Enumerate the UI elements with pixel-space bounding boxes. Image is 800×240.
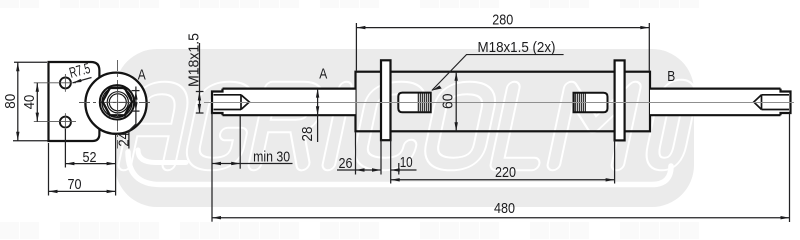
52 [65,162,74,165]
svg-text:70: 70 [68,177,82,193]
rod thread right end [754,89,791,116]
boss crosshair inside nut [104,89,131,116]
svg-text:24: 24 [117,132,133,147]
min30 [212,162,221,165]
svg-text:52: 52 [83,150,97,166]
svg-text:M18x1.5: M18x1.5 [186,33,202,87]
dim 280 extension lines [355,23,357,71]
dim 70 [48,143,50,196]
watermark underline swoosh [128,150,671,185]
dim 480 line + extension right [789,113,791,222]
front view arrowheads [16,62,138,193]
axis centerline [204,102,794,104]
svg-text:26: 26 [339,156,353,172]
piston rod left segment [223,89,356,116]
svg-text:60: 60 [441,94,457,110]
480 [212,216,221,219]
dim 280 line [356,27,649,29]
boss centerlines [79,60,151,149]
dim 24 [132,90,140,92]
boss ring circles [100,85,134,119]
svg-text:A: A [319,67,327,83]
40 [36,83,39,92]
front view dims [13,62,140,195]
24 [134,91,137,100]
rod thread left end (M18x1.5) [212,89,249,116]
port right (M18x1.5) [574,93,608,113]
70 [49,190,58,193]
svg-text:80: 80 [3,94,19,109]
svg-text:A: A [138,68,146,84]
svg-text:40: 40 [22,95,38,110]
bolt hole bottom [60,117,71,128]
28 [316,89,319,98]
nut inner circles [107,92,128,113]
leader M18x1.5 (2x) [432,55,564,91]
svg-text:10: 10 [400,155,413,171]
hole centermarks [34,74,76,131]
280 [356,26,365,29]
dim 52 [64,129,66,168]
leader arrow (2x ports) [432,86,442,91]
10 [391,168,400,171]
svg-text:min 30: min 30 [253,150,290,166]
26 [356,168,365,171]
mounting flange left (side view) [381,60,391,140]
cylinder body (tube) [356,72,651,132]
hex nut [103,88,133,115]
60 [455,72,458,81]
dim 60 line [455,72,457,132]
dim 80 [14,61,47,63]
bolt hole top [60,77,71,88]
dim M18 line + extensions [199,43,201,113]
svg-text:220: 220 [495,165,516,181]
flange plate [49,62,100,141]
texts side view [186,12,675,217]
boss outer circle [85,73,146,134]
svg-text:280: 280 [492,12,513,28]
dim 40 [36,83,38,122]
piston rod right segment [650,89,781,116]
svg-text:480: 480 [494,201,515,217]
dim 26 line + extensions [355,132,357,174]
svg-text:M18x1.5 (2x): M18x1.5 (2x) [478,40,556,56]
front view texts [3,61,146,193]
arrowheads side view [198,26,790,220]
dim 28 line [317,89,319,142]
dim 220 line + extensions [390,140,392,183]
port left (M18x1.5) [398,93,430,113]
80 [16,62,19,71]
220 [391,178,400,181]
R7.5 leader [73,78,92,83]
letters: white contour via double stroke [125,86,693,164]
R7.5 [73,79,82,83]
dim 10 line + extension [398,163,400,175]
mounting flange right (side view) [615,60,625,140]
svg-text:B: B [667,69,675,85]
M18 [198,92,201,101]
dim min30 line + extensions [211,113,213,222]
svg-text:28: 28 [300,127,316,142]
watermark logo background [115,49,694,207]
